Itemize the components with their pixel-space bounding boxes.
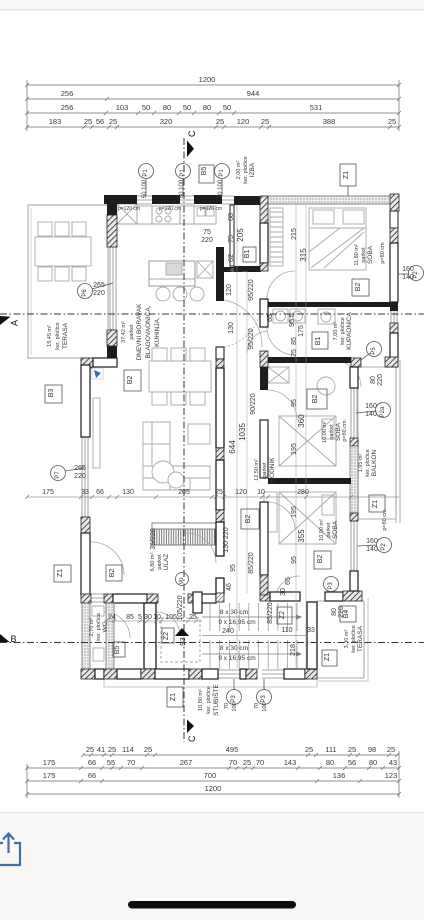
bedroom 11,60 bed (309, 208, 366, 270)
svg-text:B5: B5 (114, 646, 121, 655)
svg-text:70: 70 (229, 758, 237, 767)
svg-text:103: 103 (116, 103, 129, 112)
svg-text:25: 25 (215, 489, 223, 496)
svg-text:46: 46 (226, 583, 233, 591)
svg-text:25: 25 (387, 745, 395, 754)
svg-text:136: 136 (333, 771, 346, 780)
svg-text:256: 256 (61, 89, 74, 98)
svg-text:944: 944 (247, 89, 260, 98)
svg-text:220: 220 (201, 237, 213, 244)
svg-text:Vo: Vo (179, 577, 185, 585)
svg-text:205: 205 (236, 228, 245, 242)
svg-text:Z1: Z1 (372, 500, 379, 508)
svg-text:IZBA: IZBA (249, 162, 256, 177)
svg-text:1200: 1200 (205, 784, 222, 793)
svg-text:S3: S3 (180, 637, 187, 646)
svg-text:644: 644 (228, 440, 237, 454)
wc left wall lower (82, 603, 90, 669)
bottom wall y669 (81, 669, 95, 679)
svg-text:B1: B1 (315, 337, 322, 346)
corridor left wall x216 (216, 247, 224, 268)
svg-text:130 220: 130 220 (223, 527, 230, 552)
svg-text:100: 100 (262, 702, 268, 711)
soba1 bed (279, 416, 336, 466)
S3 stair marker (175, 628, 189, 636)
svg-text:B5: B5 (201, 167, 208, 176)
svg-text:25: 25 (144, 745, 152, 754)
svg-text:parket: parket (129, 324, 135, 340)
svg-text:KUHINJA,: KUHINJA, (154, 317, 161, 347)
svg-text:360: 360 (297, 414, 306, 428)
svg-text:25: 25 (216, 117, 224, 126)
svg-text:A: A (10, 320, 20, 326)
home indicator (128, 901, 296, 909)
svg-text:9 x 16,95 cm: 9 x 16,95 cm (218, 619, 255, 626)
stair left wall (144, 603, 156, 669)
svg-text:220: 220 (377, 374, 384, 386)
svg-text:ker. pločice: ker. pločice (206, 686, 212, 714)
svg-text:320: 320 (160, 117, 173, 126)
blue annotation mark in living room (92, 368, 103, 379)
corridor right wall x260 (260, 196, 268, 223)
svg-text:10,00 m²: 10,00 m² (319, 519, 325, 541)
svg-text:25: 25 (189, 614, 197, 621)
coffee tables (152, 461, 174, 483)
svg-text:41: 41 (97, 745, 105, 754)
svg-text:B2: B2 (245, 515, 252, 524)
svg-text:P2: P2 (413, 271, 419, 279)
svg-text:6,80 m²: 6,80 m² (150, 553, 156, 572)
svg-text:50 100: 50 100 (179, 179, 185, 198)
svg-text:50 100: 50 100 (142, 179, 148, 198)
svg-text:SOBA: SOBA (332, 520, 339, 539)
svg-text:35/220: 35/220 (150, 528, 157, 550)
top wall window sills (137, 196, 152, 204)
svg-text:256: 256 (61, 103, 74, 112)
svg-text:STUBIŠTE: STUBIŠTE (211, 683, 220, 715)
svg-text:120: 120 (237, 117, 250, 126)
svg-text:280: 280 (297, 489, 309, 496)
svg-text:25: 25 (243, 758, 251, 767)
balcony rail (358, 367, 396, 519)
svg-text:123: 123 (385, 771, 398, 780)
svg-text:85: 85 (291, 337, 298, 345)
svg-text:50: 50 (142, 103, 150, 112)
west terrace outline (28, 205, 108, 358)
svg-text:80: 80 (163, 103, 171, 112)
wc fixtures (92, 606, 104, 616)
svg-text:ker. pločice: ker. pločice (55, 322, 61, 350)
svg-text:P7: P7 (55, 471, 61, 479)
wall above stairs x193 (193, 592, 202, 613)
svg-text:12,50 m²: 12,50 m² (254, 459, 260, 481)
svg-text:SOBA: SOBA (367, 245, 374, 264)
balcony windows P2a / P2 (351, 388, 357, 438)
svg-text:TERASA: TERASA (62, 322, 69, 349)
share icon (0, 834, 20, 866)
svg-text:parket: parket (262, 462, 268, 478)
svg-text:B2: B2 (109, 569, 116, 578)
wc divider (106, 603, 114, 669)
porch lines bottom-left (104, 679, 317, 687)
right wall window P2 (391, 211, 397, 232)
svg-text:37,42 m²: 37,42 m² (121, 321, 127, 343)
svg-text:114: 114 (122, 745, 134, 754)
svg-text:220: 220 (74, 473, 86, 480)
svg-text:BALKON: BALKON (371, 450, 378, 477)
svg-text:75: 75 (228, 235, 235, 243)
svg-text:111: 111 (325, 745, 336, 754)
svg-text:30: 30 (280, 588, 287, 596)
svg-text:8 x 30 cm: 8 x 30 cm (220, 609, 248, 616)
svg-text:183: 183 (49, 117, 62, 126)
indoor dining table (149, 361, 211, 392)
svg-text:65: 65 (267, 314, 274, 322)
svg-text:50: 50 (183, 103, 191, 112)
svg-text:98: 98 (368, 745, 376, 754)
svg-text:2,00 m²: 2,00 m² (236, 161, 242, 180)
svg-text:25: 25 (108, 745, 116, 754)
svg-text:5: 5 (138, 614, 142, 621)
se terrace outline (317, 601, 364, 678)
svg-text:80: 80 (203, 103, 211, 112)
svg-text:175: 175 (43, 771, 56, 780)
svg-text:315: 315 (299, 248, 308, 262)
svg-text:parket: parket (329, 424, 335, 440)
svg-text:Z2: Z2 (279, 611, 286, 619)
svg-text:25: 25 (388, 117, 396, 126)
svg-text:70: 70 (224, 703, 230, 709)
svg-text:P5: P5 (371, 347, 377, 355)
bathroom fixtures (273, 309, 288, 323)
kitchen island (149, 261, 195, 286)
svg-text:Z1: Z1 (343, 171, 350, 179)
svg-text:130: 130 (228, 322, 235, 334)
step wall (81, 358, 93, 368)
svg-text:SOBA: SOBA (335, 422, 342, 441)
svg-text:80: 80 (369, 758, 377, 767)
closet strip bedroom1 (270, 208, 283, 266)
B marker left (0, 634, 10, 642)
left wall lower window P7 (82, 437, 88, 517)
bathroom south / balcony north wall y357 (268, 357, 351, 363)
svg-text:P2a: P2a (380, 406, 386, 417)
left lower wall (81, 365, 90, 437)
svg-text:195: 195 (291, 506, 298, 518)
svg-text:19,45 m²: 19,45 m² (47, 325, 53, 347)
svg-text:66: 66 (96, 489, 104, 496)
C marker bottom (187, 720, 194, 734)
svg-text:ULAZ: ULAZ (163, 554, 170, 571)
svg-text:7,00 m²: 7,00 m² (333, 322, 339, 341)
door arcs (224, 300, 262, 347)
svg-text:85: 85 (126, 614, 134, 621)
svg-text:10: 10 (153, 614, 161, 621)
svg-text:80: 80 (326, 758, 334, 767)
svg-text:p=120 cm: p=120 cm (159, 206, 181, 212)
svg-text:11,60 m²: 11,60 m² (354, 244, 360, 265)
left wall sliding door P6 (110, 247, 116, 330)
svg-text:B2: B2 (127, 376, 134, 385)
svg-text:100: 100 (232, 702, 238, 711)
svg-text:195: 195 (291, 443, 298, 455)
svg-text:C: C (187, 735, 197, 742)
svg-text:240: 240 (222, 628, 234, 635)
svg-text:85/220: 85/220 (267, 602, 274, 624)
top wall solid segments (104, 195, 137, 204)
svg-text:25: 25 (84, 117, 92, 126)
sofa L-shape (143, 422, 210, 490)
svg-text:3,30 m²: 3,30 m² (344, 630, 350, 649)
svg-text:p=120 cm: p=120 cm (118, 206, 140, 212)
svg-text:ker. pločice: ker. pločice (365, 449, 371, 477)
svg-text:P1: P1 (219, 169, 225, 177)
svg-text:8 x 30 cm: 8 x 30 cm (220, 645, 248, 652)
tv bench left wall (93, 398, 100, 468)
svg-text:HODNIK: HODNIK (269, 457, 276, 483)
svg-text:140: 140 (366, 546, 378, 553)
svg-text:56: 56 (96, 117, 104, 126)
svg-text:ker. pločice: ker. pločice (340, 317, 346, 345)
svg-text:25: 25 (261, 117, 269, 126)
kitchen/corridor horiz wall y267 (224, 267, 261, 272)
fridge (197, 261, 213, 278)
svg-text:p=80 cm: p=80 cm (380, 242, 386, 264)
svg-text:175: 175 (42, 489, 54, 496)
svg-text:105: 105 (165, 614, 177, 621)
svg-text:700: 700 (204, 771, 217, 780)
svg-text:1035: 1035 (238, 423, 247, 441)
svg-text:parket: parket (157, 554, 163, 570)
svg-text:75: 75 (203, 229, 211, 236)
svg-text:110: 110 (281, 627, 292, 634)
svg-text:62: 62 (228, 254, 235, 262)
svg-text:33: 33 (307, 627, 315, 634)
svg-text:220: 220 (93, 290, 105, 297)
svg-text:1200: 1200 (199, 75, 216, 84)
svg-text:25: 25 (291, 349, 298, 357)
svg-text:25: 25 (109, 117, 117, 126)
svg-text:Z1: Z1 (57, 569, 64, 577)
bathroom north wall y302 (268, 302, 392, 307)
svg-text:70: 70 (256, 758, 264, 767)
svg-text:1,95 m²: 1,95 m² (358, 454, 364, 473)
stools (156, 287, 170, 301)
outdoor dining table (35, 237, 91, 266)
svg-text:10: 10 (257, 489, 265, 496)
top wall textured right part (268, 196, 392, 204)
svg-text:130: 130 (122, 489, 134, 496)
svg-text:WC: WC (102, 621, 109, 632)
svg-text:33: 33 (81, 489, 89, 496)
svg-text:30: 30 (144, 614, 152, 621)
svg-text:B2: B2 (312, 395, 319, 404)
svg-text:68: 68 (228, 213, 235, 221)
stair arrows (296, 615, 302, 620)
svg-text:24: 24 (108, 614, 116, 621)
svg-text:80: 80 (331, 608, 338, 616)
svg-text:495: 495 (226, 745, 239, 754)
svg-text:p=120 cm: p=120 cm (200, 206, 222, 212)
svg-text:95: 95 (291, 556, 298, 564)
svg-text:25: 25 (86, 745, 94, 754)
svg-text:95: 95 (230, 564, 237, 572)
svg-text:70: 70 (254, 703, 260, 709)
svg-text:B4: B4 (343, 610, 350, 619)
svg-text:10,00 m²: 10,00 m² (322, 421, 328, 443)
svg-text:parket: parket (326, 522, 332, 538)
bottom wall windows P3 (218, 670, 240, 678)
izba walls (230, 205, 234, 266)
svg-text:parket: parket (361, 247, 367, 263)
svg-text:P6: P6 (82, 289, 88, 297)
bottom-left band y594 (81, 594, 91, 603)
south wall under soba2 (260, 592, 270, 601)
svg-text:ker. pločice: ker. pločice (243, 156, 249, 184)
svg-text:66: 66 (88, 771, 96, 780)
svg-text:218: 218 (290, 644, 297, 656)
svg-text:65: 65 (285, 577, 292, 585)
svg-text:TERASA: TERASA (357, 625, 364, 652)
svg-text:105/220: 105/220 (177, 595, 184, 620)
svg-text:B2: B2 (355, 283, 362, 292)
svg-text:KUPAONICA: KUPAONICA (346, 311, 353, 349)
svg-text:p=80 cm: p=80 cm (342, 420, 348, 442)
svg-text:P1: P1 (143, 169, 149, 177)
top-right corner pier (390, 194, 399, 211)
svg-text:55: 55 (107, 758, 115, 767)
svg-text:B3: B3 (48, 389, 55, 398)
svg-text:143: 143 (284, 758, 297, 767)
svg-text:215: 215 (291, 228, 298, 240)
svg-text:50 100: 50 100 (218, 179, 224, 198)
svg-text:90/220: 90/220 (250, 393, 257, 415)
svg-text:95/220: 95/220 (248, 279, 255, 301)
A marker left (0, 316, 11, 325)
svg-text:205: 205 (178, 489, 190, 496)
svg-text:P3: P3 (328, 582, 334, 590)
svg-text:P2: P2 (381, 543, 387, 551)
svg-text:P3: P3 (261, 695, 267, 703)
svg-text:B: B (11, 634, 17, 644)
soba2 bed (279, 492, 336, 544)
svg-text:P3: P3 (231, 695, 237, 703)
svg-text:175: 175 (43, 758, 56, 767)
svg-text:120: 120 (235, 489, 247, 496)
svg-text:C: C (187, 130, 197, 137)
svg-text:ker. pločice: ker. pločice (351, 625, 357, 653)
svg-text:95 5: 95 5 (289, 313, 296, 327)
svg-text:531: 531 (310, 103, 323, 112)
svg-text:175: 175 (298, 325, 305, 337)
svg-text:85/220: 85/220 (248, 552, 255, 574)
svg-text:B2: B2 (317, 555, 324, 564)
svg-text:9 x 16,95 cm: 9 x 16,95 cm (218, 655, 255, 662)
svg-text:2,70 m²: 2,70 m² (89, 618, 95, 637)
svg-text:ker. pločica: ker. pločica (96, 612, 102, 640)
C marker top (187, 141, 194, 158)
svg-text:Z1: Z1 (324, 653, 331, 661)
svg-text:120: 120 (226, 284, 233, 296)
svg-text:95/220: 95/220 (248, 328, 255, 350)
svg-text:P1: P1 (180, 169, 186, 177)
svg-text:43: 43 (389, 758, 397, 767)
svg-text:DNEVNI BORAVAK: DNEVNI BORAVAK (136, 303, 143, 360)
washer room soba1 (268, 367, 289, 383)
svg-text:80: 80 (370, 376, 377, 384)
left wall upper (107, 195, 117, 215)
svg-text:10,80 m²: 10,80 m² (198, 689, 204, 711)
svg-text:388: 388 (323, 117, 336, 126)
svg-text:66: 66 (88, 758, 96, 767)
svg-text:B1: B1 (244, 250, 251, 259)
svg-text:70: 70 (127, 758, 135, 767)
svg-text:25: 25 (305, 745, 313, 754)
svg-text:95: 95 (291, 399, 298, 407)
wall between sobas y478 (268, 478, 351, 484)
balcony west wall (350, 367, 358, 388)
kitchen counter top (117, 223, 216, 225)
svg-text:50: 50 (223, 103, 231, 112)
svg-text:267: 267 (180, 758, 193, 767)
svg-text:Z2: Z2 (163, 632, 170, 640)
entrance wardrobe (152, 523, 216, 545)
svg-text:BLAGOVAONICA,: BLAGOVAONICA, (145, 305, 152, 358)
svg-text:56: 56 (348, 758, 356, 767)
svg-text:25: 25 (348, 745, 356, 754)
stair right wall (307, 602, 317, 669)
svg-text:355: 355 (297, 529, 306, 543)
svg-text:Z1: Z1 (170, 693, 177, 701)
right outer wall (390, 211, 398, 228)
